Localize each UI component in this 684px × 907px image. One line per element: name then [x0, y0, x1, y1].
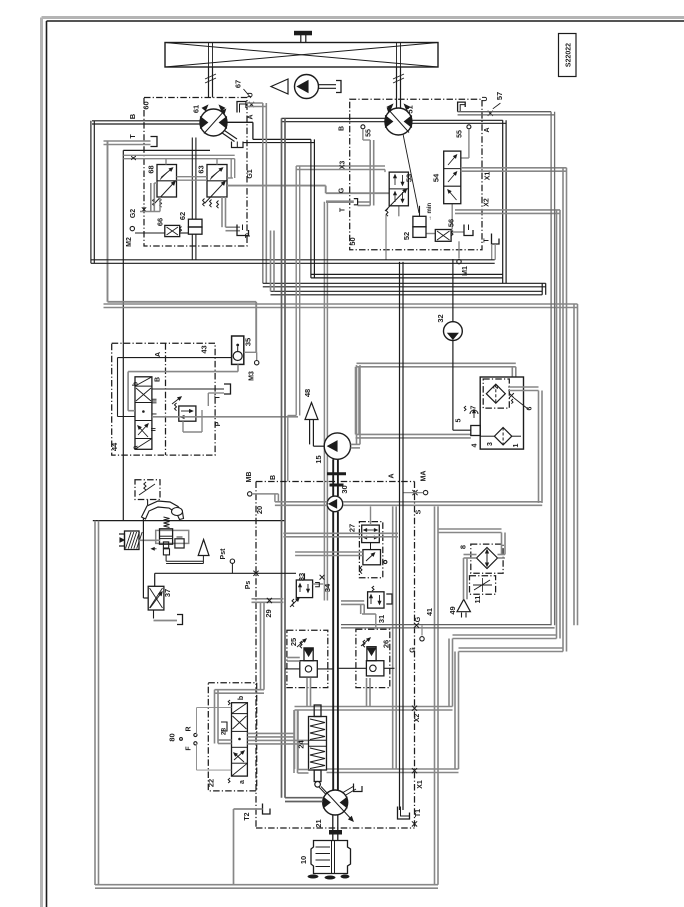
- valve 44 spool (3-position): [133, 377, 159, 450]
- valve 54: [432, 151, 461, 204]
- wire U57 riser: [551, 112, 555, 626]
- wire A-loop from pump 51 down and left: [263, 120, 546, 294]
- valve 26 assembly: [356, 629, 391, 706]
- valve 66 (shuttle): [156, 218, 182, 237]
- svg-text:G2: G2: [130, 209, 137, 218]
- svg-text:52: 52: [402, 232, 411, 240]
- svg-text:B: B: [339, 126, 346, 131]
- valve 27 assembly: [348, 522, 387, 578]
- svg-text:B: B: [155, 377, 162, 382]
- svg-text:R: R: [186, 726, 193, 731]
- sensor 35: [232, 336, 253, 364]
- pump 51 (variable displacement): [385, 105, 419, 214]
- port M1: [457, 241, 469, 276]
- wire Ps pilot long line: [155, 548, 296, 589]
- pedal lever: [142, 501, 184, 520]
- pump61 case drain to bracket: [222, 131, 244, 148]
- wire box60 drain to return: [192, 234, 196, 260]
- filter manifold block 1: [456, 377, 534, 449]
- valve 63 (pressure control): [197, 165, 228, 209]
- svg-text:A: A: [155, 352, 162, 357]
- port X2 bottom: [412, 706, 421, 723]
- wire group50 internal left: [358, 140, 374, 206]
- valve 62: [178, 212, 202, 234]
- wire valve44 P line: [152, 166, 300, 482]
- wire return manifold junction: [435, 506, 439, 884]
- svg-text:55: 55: [366, 129, 373, 137]
- wire bottom return line: [95, 521, 438, 889]
- wire valve22 supply loop: [215, 602, 265, 743]
- svg-text:30: 30: [340, 485, 349, 493]
- svg-text:55: 55: [457, 130, 464, 138]
- pump21 shaft and coupling: [330, 815, 342, 840]
- svg-text:X2: X2: [414, 714, 421, 723]
- wire main line pump21 to pump51 B: [282, 118, 286, 797]
- valve 56: [427, 203, 456, 242]
- wire valve22 outputs: [247, 710, 308, 769]
- svg-text:1: 1: [513, 443, 520, 447]
- svg-text:T: T: [340, 207, 347, 212]
- svg-text:51: 51: [406, 105, 415, 113]
- wire pump51 port A: [412, 119, 503, 121]
- wire spool24 left loop: [294, 710, 309, 773]
- svg-text:U: U: [482, 96, 489, 101]
- port T2 bracket: [234, 804, 271, 885]
- port MA: [403, 490, 428, 495]
- wire G 41 line: [341, 608, 555, 653]
- svg-text:b: b: [238, 696, 245, 700]
- svg-text:S22022: S22022: [566, 43, 573, 67]
- svg-text:X1: X1: [485, 172, 492, 181]
- svg-text:X2: X2: [484, 198, 491, 207]
- svg-text:57: 57: [495, 92, 504, 100]
- wire X1 line right side: [461, 168, 567, 652]
- wire valve54 links: [399, 204, 464, 234]
- wire filter8 connections: [438, 529, 505, 599]
- svg-text:G: G: [339, 187, 346, 193]
- wire pump61 port A to junction: [227, 122, 314, 142]
- svg-text:8: 8: [459, 545, 468, 549]
- valve 37: [148, 586, 172, 610]
- drawing number label S22022: [559, 34, 577, 77]
- pump 21 (main variable pump): [314, 787, 353, 828]
- svg-text:Pst: Pst: [220, 548, 227, 560]
- wire pump61 port B loop: [92, 120, 200, 122]
- svg-text:T: T: [245, 233, 252, 238]
- wire flush supply lines: [283, 506, 398, 555]
- manifold 4 inlet box: [471, 426, 495, 437]
- svg-text:b: b: [133, 382, 140, 386]
- filter 3 element: [494, 428, 521, 445]
- drive shaft to pump 61: [205, 67, 216, 98]
- valve 31: [341, 586, 392, 629]
- wire valve44 B line: [128, 364, 238, 410]
- svg-text:43: 43: [200, 345, 209, 353]
- wire gray riser A2: [393, 506, 397, 769]
- wire enclosure bottom: [93, 520, 286, 522]
- svg-text:T: T: [215, 395, 222, 400]
- svg-text:62: 62: [178, 212, 187, 220]
- filter 8 with housing: [459, 544, 504, 573]
- pilot valve 43: [172, 397, 196, 421]
- wire 48 outlet with arrow: [303, 389, 324, 446]
- svg-text:III: III: [152, 398, 159, 404]
- svg-text:41: 41: [427, 608, 434, 616]
- wire pilot43 connections: [183, 393, 224, 432]
- oil cooler (radiator) 59: [165, 43, 438, 68]
- port M2: [126, 226, 188, 246]
- motor 30 (flush): [327, 485, 349, 511]
- svg-text:34: 34: [323, 583, 332, 592]
- port T group50 left bracket: [324, 199, 357, 601]
- svg-text:44: 44: [110, 442, 119, 451]
- svg-text:4: 4: [472, 443, 479, 447]
- inch pedal damper box: [135, 480, 160, 505]
- pump 15 (charge pump): [314, 433, 351, 464]
- svg-text:21: 21: [314, 819, 323, 827]
- port U of group 50 with bracket and 57: [458, 92, 555, 116]
- svg-text:Ps: Ps: [245, 581, 252, 590]
- wire spool24 to pump 21 link: [319, 787, 328, 796]
- wire port X line and enclosure: [123, 150, 234, 520]
- circle 32 pump: [436, 259, 471, 430]
- svg-text:29: 29: [264, 609, 273, 617]
- svg-text:5: 5: [456, 418, 463, 422]
- valve 33: [290, 573, 323, 607]
- svg-text:A: A: [389, 473, 396, 478]
- gauge port 55 right: [457, 125, 471, 158]
- wire pump15 outlet to filter: [351, 363, 516, 448]
- svg-text:a: a: [239, 780, 246, 784]
- valve block 44 enclosure: [110, 343, 215, 455]
- svg-text:15: 15: [314, 455, 323, 463]
- port M3: [244, 352, 259, 381]
- wire riser from T bracket box60: [271, 231, 275, 292]
- svg-text:25: 25: [289, 638, 298, 646]
- svg-text:67: 67: [234, 80, 243, 88]
- svg-text:I: I: [152, 413, 159, 415]
- svg-text:20: 20: [255, 506, 264, 514]
- wire 29 line: [252, 598, 284, 618]
- brake master valve: [152, 529, 189, 555]
- wire valve37 drain: [154, 610, 183, 625]
- port T1 bracket: [398, 807, 423, 827]
- svg-text:a: a: [133, 445, 140, 449]
- svg-text:80: 80: [168, 733, 177, 741]
- bracket T inside group 50: [464, 225, 473, 236]
- port T of group 60 with bracket: [104, 134, 158, 147]
- svg-text:M3: M3: [249, 371, 256, 381]
- svg-text:26: 26: [382, 640, 391, 648]
- svg-text:→ min: → min: [427, 203, 433, 222]
- valve block 22 enclosure: [207, 683, 257, 791]
- svg-text:50: 50: [348, 237, 357, 245]
- wire T return long line: [91, 260, 495, 264]
- pump 61 (variable displacement): [192, 105, 228, 136]
- svg-text:48: 48: [303, 389, 312, 397]
- wire filter2 outlet down: [508, 387, 542, 503]
- vent 49: [448, 599, 470, 617]
- port T group50 right bracket: [492, 234, 500, 260]
- svg-text:B: B: [128, 113, 137, 119]
- accumulator hatched: [119, 531, 160, 550]
- wire X3 line: [296, 166, 385, 172]
- svg-text:10: 10: [299, 856, 308, 864]
- bracket T inside group 60 lower right: [237, 225, 252, 239]
- svg-text:3: 3: [487, 442, 494, 446]
- pump21 case drain bracket: [343, 784, 362, 796]
- svg-text:11: 11: [473, 596, 482, 604]
- port G2: [130, 183, 160, 218]
- wire U60 line: [246, 103, 266, 283]
- svg-text:M2: M2: [126, 237, 133, 247]
- cooler bleed fitting: [295, 31, 312, 42]
- svg-text:66: 66: [156, 218, 165, 226]
- wire main vertical center pair: [327, 459, 346, 790]
- wire cartridge links: [285, 667, 395, 670]
- svg-text:MA: MA: [421, 471, 428, 482]
- svg-text:22: 22: [207, 779, 216, 787]
- spool valve 24: [297, 705, 327, 787]
- svg-text:53: 53: [405, 174, 414, 182]
- valve 68 (pressure control): [147, 165, 177, 208]
- port X1 bottom: [412, 768, 424, 789]
- fan symbol (air flow arrow): [271, 79, 288, 94]
- wire interconnect pumps A: [311, 139, 503, 278]
- wire Ps riser to valve37: [154, 573, 156, 586]
- svg-text:II: II: [151, 428, 158, 432]
- tank reservoir 10: [299, 841, 351, 880]
- svg-text:49: 49: [448, 606, 457, 614]
- valve 22 spool: [228, 696, 247, 784]
- valve 11: [470, 576, 496, 604]
- svg-text:T1: T1: [415, 809, 422, 817]
- wire T60 drain down-right: [108, 141, 257, 353]
- svg-text:68: 68: [147, 165, 156, 173]
- restrictor 34: [315, 575, 332, 592]
- svg-text:G: G: [415, 616, 422, 622]
- svg-text:G1: G1: [247, 169, 254, 178]
- valve 53: [385, 172, 414, 260]
- wire pump21 suction from left: [285, 798, 323, 802]
- svg-text:F: F: [186, 746, 193, 751]
- wire valve63 to T bracket: [222, 197, 240, 231]
- svg-text:54: 54: [432, 173, 441, 182]
- pump group 60 enclosure (dash-dot): [144, 98, 247, 247]
- wire G1 line to group 50 port G: [227, 185, 326, 187]
- wire valve44 A line: [118, 358, 232, 417]
- check valve 7 and spring 5: [464, 406, 478, 418]
- svg-text:A: A: [248, 114, 255, 119]
- svg-text:35: 35: [244, 338, 253, 346]
- wire staircase to X1 port: [327, 648, 564, 773]
- svg-text:T: T: [130, 134, 137, 139]
- svg-text:X: X: [129, 155, 138, 160]
- port MB: [248, 492, 279, 502]
- wire pedal to valve 37: [143, 518, 148, 598]
- gauge port 55 left: [361, 125, 373, 140]
- svg-text:B: B: [270, 475, 277, 480]
- wire brake valve vent arrow: [166, 540, 209, 564]
- svg-text:63: 63: [197, 165, 206, 173]
- svg-text:T2: T2: [244, 812, 251, 820]
- valve 52 (servo): [402, 206, 426, 240]
- svg-text:A: A: [484, 127, 491, 132]
- svg-text:G: G: [410, 647, 417, 653]
- filter 2 element: [486, 384, 505, 403]
- pump group 50 enclosure (dash-dot): [350, 99, 482, 250]
- svg-text:56: 56: [447, 219, 456, 227]
- svg-text:61: 61: [192, 105, 201, 113]
- wire valve44 T line: [152, 384, 231, 400]
- svg-text:31: 31: [377, 615, 386, 623]
- fan motor 67: [295, 75, 342, 99]
- svg-text:60: 60: [142, 101, 151, 109]
- wire flush line left of motor 30: [275, 502, 542, 506]
- wire pump51 port B from main line: [282, 117, 386, 119]
- valve 25 assembly: [287, 630, 328, 706]
- wire MB block boundary: [246, 471, 428, 828]
- wire staircase to X2 port: [295, 635, 557, 710]
- detent 28: [221, 722, 228, 735]
- wire X2 line right side: [455, 210, 560, 639]
- wire black riser A spine: [400, 262, 404, 810]
- svg-text:MB: MB: [246, 472, 253, 483]
- pedal spring: [164, 517, 170, 528]
- svg-text:37: 37: [163, 589, 172, 597]
- svg-text:P: P: [215, 421, 222, 426]
- switch 80 F R: [168, 708, 232, 771]
- bypass valve 6: [509, 393, 528, 409]
- wire pump61 control piston line: [177, 138, 208, 220]
- port U of group 60 with bracket: [234, 80, 255, 113]
- svg-text:T: T: [484, 238, 491, 243]
- svg-text:27: 27: [348, 524, 357, 532]
- svg-text:S: S: [416, 509, 423, 514]
- svg-text:28: 28: [221, 728, 228, 736]
- wire long drain line y305: [104, 304, 578, 625]
- wire branch to manifold 4: [356, 367, 471, 438]
- svg-text:X3: X3: [340, 161, 347, 170]
- svg-text:32: 32: [436, 314, 445, 322]
- svg-text:X1: X1: [417, 780, 424, 789]
- drive shaft to pump 51: [393, 67, 404, 108]
